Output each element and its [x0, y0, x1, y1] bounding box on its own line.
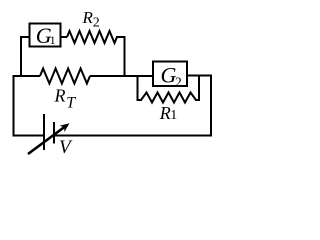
wire: left outer vertical [13, 76, 15, 136]
wire: bottom left segment to battery [14, 135, 45, 137]
resistor R1 [141, 93, 196, 103]
galvanometer box G2 [153, 62, 187, 87]
svg-text:V: V [59, 137, 73, 158]
svg-text:T: T [66, 95, 76, 112]
wire: R2 right lead and drop to middle wire [117, 37, 125, 76]
battery plate long [43, 115, 45, 149]
resistor RT [40, 69, 90, 84]
svg-text:2: 2 [175, 75, 182, 90]
variable-source arrow shaft [28, 126, 66, 154]
wire: G2 right stub [187, 75, 211, 77]
variable-source arrowhead [60, 123, 70, 132]
wire: G1 right stub [61, 36, 68, 38]
resistor R2 [67, 31, 117, 43]
svg-text:1: 1 [170, 108, 177, 123]
wire: R1 right riser [196, 76, 199, 101]
wire: bottom right segment from battery [54, 135, 211, 137]
svg-text:R: R [82, 8, 94, 27]
svg-text:1: 1 [50, 33, 56, 47]
galvanometer box G1 [30, 24, 61, 47]
wire: right outer vertical [210, 76, 212, 136]
svg-text:R: R [54, 86, 66, 106]
wire: middle horizontal left segment [14, 75, 41, 77]
wire: R1 left riser [138, 76, 142, 100]
svg-text:R: R [159, 103, 171, 123]
battery plate short [53, 123, 55, 143]
wire: middle horizontal right segment to G2 box [90, 75, 153, 77]
svg-text:2: 2 [93, 16, 100, 31]
wire: G1 branch vertical + left stub [21, 37, 30, 76]
